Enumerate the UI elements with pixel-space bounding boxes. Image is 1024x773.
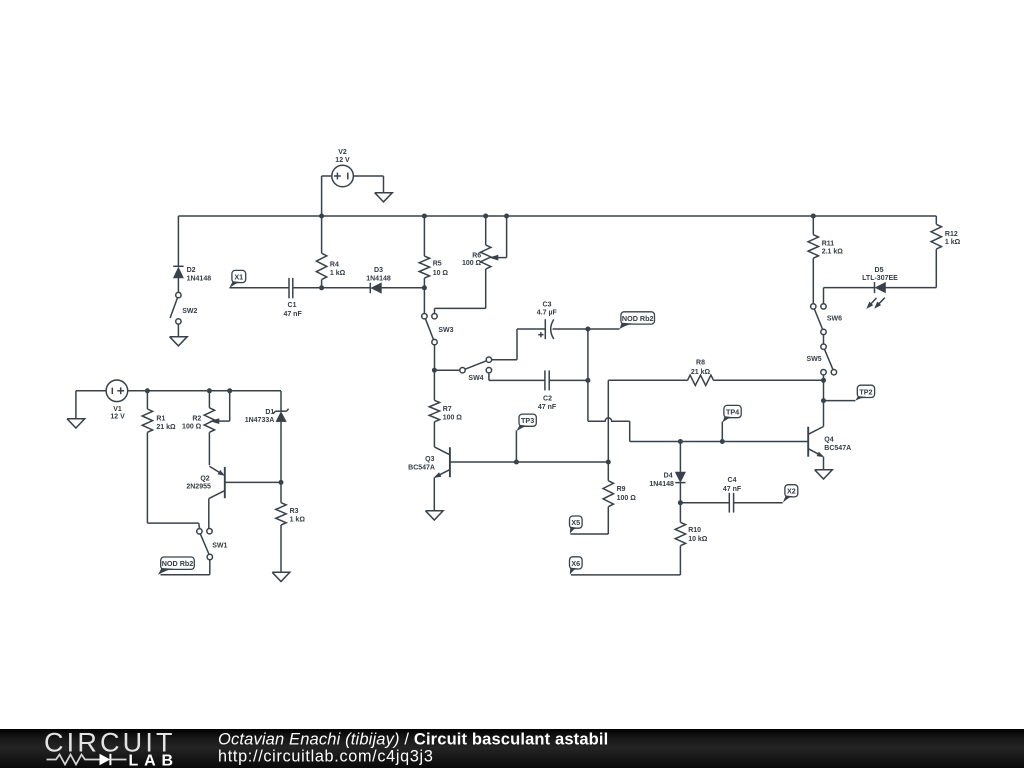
- svg-text:1 kΩ: 1 kΩ: [330, 270, 346, 277]
- node junction base-R9: [606, 460, 611, 465]
- wire TP2 tap: [824, 400, 856, 402]
- wire C1 to R4 node: [293, 287, 322, 289]
- wire X1 to C1: [229, 287, 289, 289]
- svg-text:SW2: SW2: [182, 308, 197, 315]
- capacitor C4: [680, 493, 782, 513]
- resistor R1: [142, 391, 199, 529]
- wire NOD net hop to Q4 base: [588, 418, 808, 442]
- wire V1 to D1 rail: [128, 391, 281, 411]
- svg-text:1N4148: 1N4148: [649, 481, 674, 488]
- wire SW2 to ground: [177, 324, 179, 337]
- svg-text:D2: D2: [187, 267, 196, 274]
- svg-text:R12: R12: [945, 231, 958, 238]
- svg-text:SW4: SW4: [468, 375, 483, 382]
- svg-text:12 V: 12 V: [110, 413, 125, 420]
- svg-text:SW6: SW6: [827, 316, 842, 323]
- svg-text:X2: X2: [787, 487, 796, 496]
- node junction C3-NODRb2: [585, 327, 590, 332]
- label D2: [187, 267, 212, 283]
- zener diode D1: [273, 409, 288, 483]
- svg-text:Q2: Q2: [200, 476, 209, 483]
- svg-text:1 kΩ: 1 kΩ: [290, 517, 306, 524]
- svg-text:D1: D1: [265, 409, 274, 416]
- node junction rail-R2: [207, 388, 212, 393]
- terminal X5: [570, 516, 583, 534]
- node junction rail-R6: [483, 214, 488, 219]
- label V1: [110, 406, 125, 421]
- wire D3 to R5 node: [381, 287, 424, 289]
- svg-text:LAB: LAB: [129, 752, 174, 768]
- node junction rail-R6-wiper: [504, 214, 509, 219]
- label SW6: [827, 316, 842, 323]
- svg-text:D3: D3: [374, 267, 383, 274]
- svg-text:R9: R9: [617, 486, 626, 493]
- diode D4: [675, 442, 685, 503]
- svg-text:21 kΩ: 21 kΩ: [156, 424, 176, 431]
- svg-text:R10: R10: [688, 527, 701, 534]
- ground below SW2: [170, 337, 188, 346]
- svg-text:Q4: Q4: [824, 436, 833, 443]
- svg-text:1 kΩ: 1 kΩ: [945, 239, 961, 246]
- voltage source V1: [106, 380, 128, 402]
- svg-text:R3: R3: [290, 508, 299, 515]
- label R10: [688, 527, 708, 543]
- wire C3 to NOD Rb2: [553, 328, 620, 330]
- wire TP3 tap: [515, 431, 517, 463]
- label R8: [691, 360, 711, 376]
- ground near V1: [67, 419, 85, 428]
- resistor R11: [808, 216, 818, 304]
- svg-text:NOD Rb2: NOD Rb2: [162, 559, 194, 568]
- svg-text:TP4: TP4: [726, 407, 739, 416]
- wire SW6 throw to D5: [824, 288, 875, 304]
- terminal X6: [570, 557, 583, 575]
- label C2: [538, 396, 557, 412]
- svg-text:R2: R2: [192, 415, 201, 422]
- label Q3: [408, 456, 435, 472]
- svg-text:V1: V1: [113, 406, 122, 413]
- svg-text:1N4148: 1N4148: [366, 276, 391, 283]
- svg-text:V2: V2: [338, 149, 347, 156]
- ground below Q3: [426, 511, 444, 520]
- wire Q3 base: [450, 461, 608, 463]
- ground near V2: [375, 193, 393, 202]
- svg-text:R8: R8: [696, 360, 705, 367]
- switch SW4: [460, 357, 492, 373]
- wire D2 to SW2: [177, 278, 179, 292]
- logo LAB: [129, 752, 174, 769]
- label SW5: [807, 356, 822, 363]
- wire SW4 top throw to C3: [492, 329, 546, 360]
- svg-text:10 kΩ: 10 kΩ: [688, 536, 708, 543]
- svg-text:10 Ω: 10 Ω: [433, 270, 449, 277]
- label R12: [945, 231, 961, 246]
- resistor R5: [419, 216, 429, 314]
- footer url line: [218, 748, 434, 766]
- node junction base-D1-R3: [279, 480, 284, 485]
- logo resistor-diode glyph: [47, 754, 127, 765]
- svg-text:C1: C1: [288, 302, 297, 309]
- node junction TP2-collector: [821, 398, 826, 403]
- svg-text:X6: X6: [571, 559, 580, 568]
- svg-text:R6: R6: [472, 252, 481, 259]
- svg-text:1N4148: 1N4148: [187, 276, 212, 283]
- wire SW4 bottom throw to C2: [489, 373, 545, 381]
- label D3: [366, 267, 391, 283]
- ground below R3: [272, 572, 290, 581]
- flag NOD Rb2 right: [620, 312, 655, 329]
- flag TP4: [722, 405, 741, 422]
- CircuitLab logo wordmark: [44, 728, 173, 758]
- flag TP2: [855, 385, 874, 400]
- flag NOD Rb2 left: [158, 557, 194, 575]
- svg-text:C3: C3: [543, 302, 552, 309]
- resistor R12: [931, 216, 941, 249]
- node junction rail-R1: [145, 388, 150, 393]
- svg-text:LTL-307EE: LTL-307EE: [862, 275, 898, 282]
- LED D5: [867, 282, 886, 308]
- svg-text:D4: D4: [664, 472, 673, 479]
- label Q2: [186, 476, 211, 491]
- wire to SW4 common: [434, 369, 459, 371]
- svg-text:47 nF: 47 nF: [283, 311, 302, 318]
- svg-text:2.1 kΩ: 2.1 kΩ: [822, 249, 844, 256]
- node junction D4-C4-R10: [678, 500, 683, 505]
- wire NOD net vertical: [587, 329, 589, 421]
- terminal X2: [783, 485, 798, 503]
- label SW1: [212, 543, 227, 550]
- svg-text:100 Ω: 100 Ω: [617, 495, 637, 502]
- transistor Q2: [209, 466, 281, 528]
- svg-text:4.7 µF: 4.7 µF: [537, 309, 558, 316]
- resistor R4: [316, 216, 326, 288]
- switch SW3: [422, 314, 438, 345]
- node junction rail-R5: [422, 214, 427, 219]
- wiper of R2: [211, 391, 230, 424]
- svg-text:2N2955: 2N2955: [186, 484, 211, 491]
- svg-text:TP3: TP3: [521, 416, 534, 425]
- resistor R3: [276, 482, 286, 572]
- node junction SW3-R7-SW4: [432, 368, 437, 373]
- resistor R8: [608, 375, 823, 385]
- label R7: [443, 406, 463, 422]
- wire C2 to node: [549, 379, 588, 381]
- node junction D3-R5: [422, 285, 427, 290]
- node junction R8-SW5: [821, 378, 826, 383]
- svg-text:D5: D5: [875, 267, 884, 274]
- switch SW6: [811, 304, 827, 335]
- label D1: [245, 409, 275, 424]
- capacitor C1: [289, 278, 293, 298]
- node junction base-TP3: [514, 460, 519, 465]
- diode D2: [173, 266, 183, 278]
- svg-text:SW5: SW5: [807, 356, 822, 363]
- switch SW5: [821, 344, 837, 375]
- wire SW1 common to NOD: [161, 560, 210, 575]
- svg-text:BC547A: BC547A: [824, 445, 851, 452]
- capacitor C3: [538, 319, 554, 339]
- node junction base-TP4: [720, 439, 725, 444]
- flag TP3: [516, 414, 536, 431]
- wire TP4 tap: [721, 422, 723, 442]
- node junction C2-vert: [585, 378, 590, 383]
- svg-text:http://circuitlab.com/c4jq3j3: http://circuitlab.com/c4jq3j3: [218, 748, 434, 766]
- svg-text:100 Ω: 100 Ω: [443, 415, 463, 422]
- label R1: [156, 416, 176, 431]
- wire V2 right lead: [353, 176, 383, 193]
- switch SW2: [170, 292, 181, 324]
- label R4: [330, 261, 346, 277]
- transistor Q4: [808, 401, 823, 470]
- label C1: [283, 302, 302, 318]
- svg-text:21 kΩ: 21 kΩ: [691, 369, 711, 376]
- label R9: [617, 486, 637, 502]
- wire rail to D2: [177, 216, 179, 266]
- svg-text:1N4733A: 1N4733A: [245, 417, 275, 424]
- resistor R9: [571, 462, 614, 534]
- label SW4: [468, 375, 483, 382]
- label V2: [335, 149, 350, 164]
- label Q4: [824, 436, 851, 452]
- transistor Q3: [434, 447, 450, 511]
- label R5: [433, 261, 449, 277]
- switch SW1: [197, 529, 213, 560]
- svg-text:R4: R4: [330, 261, 339, 268]
- svg-text:R5: R5: [433, 261, 442, 268]
- svg-text:BC547A: BC547A: [408, 465, 435, 472]
- label D5: [862, 267, 898, 282]
- label R6: [462, 252, 482, 267]
- wire SW6 to SW5: [823, 335, 825, 344]
- diode D3: [370, 283, 381, 293]
- svg-text:NOD Rb2: NOD Rb2: [622, 314, 654, 323]
- node junction rail-R11: [811, 214, 816, 219]
- svg-text:R1: R1: [156, 416, 165, 423]
- label R2: [182, 415, 202, 430]
- svg-text:100 Ω: 100 Ω: [182, 423, 202, 430]
- svg-text:C4: C4: [728, 477, 737, 484]
- node junction base-D4: [678, 439, 683, 444]
- wire R4 node to D3: [322, 287, 371, 289]
- svg-text:Octavian Enachi (tibijay) / Ci: Octavian Enachi (tibijay) / Circuit basc…: [218, 730, 608, 748]
- label C3: [537, 302, 558, 317]
- svg-text:R7: R7: [443, 406, 452, 413]
- svg-text:100 Ω: 100 Ω: [462, 260, 482, 267]
- capacitor C2: [545, 370, 549, 390]
- label SW3: [438, 327, 453, 334]
- wire Rb1 vertical: [607, 380, 609, 462]
- label D4: [649, 472, 674, 488]
- svg-text:47 nF: 47 nF: [723, 486, 742, 493]
- potentiometer R6: [435, 216, 491, 314]
- wire SW3 common down: [434, 345, 436, 370]
- svg-text:C2: C2: [543, 396, 552, 403]
- wire D5 to R12: [886, 249, 937, 288]
- wire SW5 throw to collector node: [823, 375, 825, 401]
- svg-text:X5: X5: [571, 518, 580, 527]
- wire V2 left lead: [322, 176, 332, 216]
- label R3: [290, 508, 306, 524]
- node junction rail-R2wiper: [227, 388, 232, 393]
- resistor R10: [571, 503, 686, 575]
- label SW2: [182, 308, 197, 315]
- svg-text:12 V: 12 V: [335, 157, 350, 164]
- svg-text:47 nF: 47 nF: [538, 404, 557, 411]
- resistor R7: [429, 370, 439, 447]
- svg-text:TP2: TP2: [859, 387, 872, 396]
- wiper of R6: [490, 216, 507, 260]
- label C4: [723, 477, 742, 493]
- potentiometer R2: [204, 391, 214, 465]
- node junction rail-R4: [319, 214, 324, 219]
- ground below Q4: [815, 470, 833, 479]
- wire top supply rail: [178, 215, 936, 217]
- node junction C1-R4-D3: [319, 285, 324, 290]
- svg-text:Q3: Q3: [425, 456, 434, 463]
- svg-text:X1: X1: [234, 272, 243, 281]
- terminal X1: [229, 270, 245, 288]
- wire V1 left lead: [76, 391, 106, 419]
- voltage source V2: [332, 165, 354, 187]
- svg-text:R11: R11: [822, 241, 835, 248]
- footer title line: [218, 730, 608, 748]
- label R11: [822, 241, 844, 256]
- svg-text:SW1: SW1: [212, 543, 227, 550]
- svg-text:SW3: SW3: [438, 327, 453, 334]
